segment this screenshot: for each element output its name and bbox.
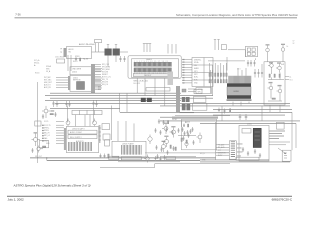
svg-text:U0410: U0410	[72, 71, 77, 73]
IC U0900 left pins	[64, 128, 67, 150]
wire	[178, 121, 196, 136]
resistor R0321	[186, 140, 187, 143]
transistor Q0201	[268, 62, 273, 70]
dark block pair	[182, 104, 186, 111]
IC U0412	[77, 82, 85, 90]
capacitor C0252	[183, 124, 185, 128]
svg-text:AUDIO CODEC: AUDIO CODEC	[70, 131, 83, 134]
IC U0900 right pins	[99, 125, 101, 143]
svg-text:R0100: R0100	[35, 73, 40, 75]
svg-text:U0900 GCAP II: U0900 GCAP II	[72, 127, 85, 130]
transistor Q0206	[281, 44, 285, 55]
svg-text:C0501 R0502: C0501 R0502	[55, 57, 64, 59]
svg-text:U0301: U0301	[247, 123, 252, 125]
capacitor C0212	[250, 60, 252, 67]
transistor Q0203	[268, 82, 273, 94]
box	[242, 129, 251, 134]
capacitor C0910	[99, 154, 101, 159]
svg-text:SPI_B: SPI_B	[200, 153, 205, 155]
svg-text:AUDIO PA U0500: AUDIO PA U0500	[79, 43, 96, 46]
inductor L0402	[147, 98, 152, 102]
wire	[100, 164, 230, 168]
transistor Q0906	[37, 146, 43, 153]
box U0904	[103, 134, 110, 140]
resistor R0320	[181, 138, 182, 141]
resistor R0910	[108, 154, 109, 157]
capacitor cluster 2	[155, 145, 174, 160]
bar U0402	[146, 88, 170, 91]
transistor Q0901	[66, 119, 70, 127]
connector J0401	[192, 58, 213, 87]
svg-text:SPK-: SPK-	[198, 92, 202, 94]
svg-text:SPKR-: SPKR-	[44, 130, 49, 132]
svg-text:1 2 3: 1 2 3	[237, 69, 241, 71]
resistor R0902	[43, 146, 46, 147]
box U0501	[57, 59, 65, 63]
capacitor C0213	[253, 60, 255, 67]
transistor Q0202	[276, 62, 281, 72]
wire	[67, 93, 127, 140]
capacitor C0301	[242, 147, 244, 152]
switch S0200	[246, 46, 258, 56]
transistor Q0101	[42, 106, 54, 118]
wire	[238, 68, 246, 76]
resistor R0323	[175, 147, 176, 150]
shield box SH0400	[128, 56, 181, 78]
resistor array R0430-R0436	[209, 80, 227, 83]
label bar U0401	[134, 73, 172, 76]
svg-text:EEPROM: EEPROM	[73, 80, 81, 82]
IC U0901 FLASH	[112, 141, 146, 157]
wire bus	[30, 158, 216, 161]
svg-text:AUX_RX: AUX_RX	[44, 86, 52, 89]
wire bus	[45, 93, 290, 106]
svg-text:BUS+: BUS+	[194, 77, 198, 79]
svg-text:7-36: 7-36	[15, 13, 21, 17]
resistor R0242	[279, 74, 280, 77]
svg-text:BUS-: BUS-	[194, 80, 198, 82]
capacitor C0303	[254, 149, 256, 154]
svg-text:D0..D15: D0..D15	[134, 83, 141, 85]
junction	[46, 157, 47, 158]
capacitor C0104	[95, 100, 98, 107]
capacitor C0105	[54, 112, 56, 117]
wire	[210, 76, 227, 79]
crystal Y0300	[253, 128, 261, 147]
wire	[56, 78, 68, 88]
svg-text:VRef: VRef	[44, 140, 48, 142]
capacitor C0215	[257, 69, 259, 78]
svg-text:Schematics, Component Location: Schematics, Component Location Diagrams,…	[176, 13, 298, 17]
capacitor C0906	[31, 148, 33, 153]
box FL0500	[95, 40, 102, 43]
net labels top-left	[34, 59, 40, 67]
svg-text:SH2: SH2	[281, 64, 284, 66]
wire	[92, 45, 129, 67]
svg-text:SSI_FS: SSI_FS	[102, 84, 109, 86]
svg-text:ONE_WIRE: ONE_WIRE	[72, 69, 82, 71]
test point TP0401	[143, 44, 151, 53]
capacitor C0511	[123, 56, 125, 62]
capacitor C0302	[247, 151, 249, 156]
svg-text:SPKR+: SPKR+	[44, 127, 49, 129]
net labels	[98, 64, 111, 91]
IC U0900 pin comb	[68, 142, 91, 151]
transistor Q0311	[170, 126, 176, 137]
svg-text:U0401: U0401	[146, 59, 153, 61]
IC U0200 bottom pins	[227, 95, 251, 98]
box RP0903	[236, 157, 259, 160]
wire	[222, 105, 280, 121]
svg-text:July 1, 2002: July 1, 2002	[8, 197, 25, 201]
svg-text:B+: B+	[287, 46, 289, 48]
box FL0203	[192, 103, 207, 110]
resistor R0251	[188, 124, 189, 127]
wire	[208, 57, 228, 71]
resistor R0322	[170, 145, 171, 148]
box U0410	[70, 67, 92, 75]
box R-pack RP0901	[109, 156, 119, 159]
transistor Q0313	[162, 141, 166, 152]
footer rule	[7, 195, 292, 198]
capacitor C0323	[187, 133, 189, 138]
box FL0201	[194, 90, 202, 94]
svg-text:3V: 3V	[293, 43, 295, 45]
test point TP0402	[168, 44, 176, 54]
capacitor C0101	[52, 101, 55, 108]
IC U0300	[229, 141, 236, 159]
wire	[137, 78, 165, 106]
wire	[233, 102, 249, 106]
transistor Q0902	[93, 119, 97, 127]
resistor R0243	[272, 98, 275, 99]
transistor Q0903	[32, 132, 41, 146]
net flags left	[44, 121, 51, 145]
box U0905	[105, 140, 110, 146]
wire	[268, 55, 284, 62]
IC U0200 pin fan	[229, 76, 252, 84]
transistor Q0907	[144, 155, 149, 163]
box module U0301	[239, 125, 269, 161]
wire	[188, 89, 196, 92]
pin labels U0300	[237, 144, 243, 157]
resistor R0101	[50, 114, 53, 115]
wire bus	[160, 117, 300, 123]
voltage flags	[214, 40, 220, 51]
transistor Q0905	[197, 133, 203, 144]
svg-text:VCC2.75: VCC2.75	[44, 125, 51, 127]
wire	[145, 152, 230, 154]
resistor R0250	[182, 89, 186, 92]
wire bus	[200, 160, 290, 162]
wire	[56, 121, 64, 143]
svg-text:U0901 FLASH: U0901 FLASH	[122, 142, 134, 145]
svg-text:SW B+: SW B+	[194, 62, 199, 64]
capacitor C0325	[158, 119, 160, 124]
IC U0200 pin row	[227, 99, 252, 101]
capacitor C0214	[254, 69, 256, 78]
connector pin dashes	[284, 153, 287, 158]
svg-text:MIC_LO: MIC_LO	[44, 135, 51, 137]
pin comb	[168, 72, 174, 86]
svg-text:REG / SUPPLY: REG / SUPPLY	[70, 137, 82, 139]
box U0250	[181, 119, 216, 150]
resistor R0244	[230, 109, 231, 112]
capacitor C0912	[154, 156, 156, 161]
net labels left	[44, 49, 63, 90]
capacitor C0320	[181, 127, 183, 132]
wire	[175, 113, 230, 116]
capacitor C0304	[259, 153, 261, 158]
IC U0901 pin comb	[122, 145, 142, 155]
capacitor C0220	[221, 45, 226, 50]
wire	[92, 69, 102, 89]
capacitor C0106	[65, 101, 67, 107]
shield box right	[264, 62, 285, 105]
IC U0200 top pins	[227, 83, 251, 87]
capacitor C0322	[191, 127, 193, 132]
svg-text:VIP1: VIP1	[194, 71, 198, 73]
transformer T0500	[105, 49, 112, 56]
svg-text:U0200: U0200	[234, 91, 239, 93]
capacitor C0251	[182, 136, 184, 141]
resistor network bar	[72, 110, 102, 114]
transistor Q0205	[266, 44, 270, 55]
sub block	[68, 130, 97, 134]
box FL0202	[193, 97, 206, 103]
capacitor C0326	[162, 120, 164, 125]
capacitor C0510	[119, 56, 121, 62]
svg-text:B+: B+	[185, 122, 187, 124]
wire	[216, 145, 229, 155]
capacitor C0211	[247, 60, 249, 67]
box J0402	[196, 88, 212, 94]
wire	[295, 123, 297, 148]
pin comb column	[91, 64, 95, 93]
wire	[268, 94, 282, 102]
IC U0200	[227, 87, 251, 96]
box U0411	[70, 75, 92, 91]
capacitor C0108	[42, 114, 44, 119]
IC U0900 pin stubs	[99, 128, 101, 140]
capacitor C0911	[103, 154, 105, 159]
resistor R0241	[274, 74, 275, 77]
capacitor C0321	[186, 130, 188, 135]
resistor array R0420-R0426	[209, 73, 227, 76]
wire	[269, 142, 290, 145]
header rule	[15, 17, 298, 18]
svg-text:R0503: R0503	[73, 61, 78, 63]
svg-text:K9.1: K9.1	[290, 80, 293, 82]
box U0903	[102, 124, 110, 130]
svg-text:5V: 5V	[293, 41, 295, 43]
svg-text:SW_B+: SW_B+	[34, 63, 40, 65]
connector J0300	[282, 150, 291, 161]
bus band	[172, 117, 218, 119]
op-amp U0500	[67, 47, 92, 59]
note text	[269, 131, 285, 140]
pin comb column U0401 bottom	[176, 86, 180, 113]
resistor R0324	[168, 121, 169, 124]
wire	[228, 58, 262, 69]
transistor Q0204	[277, 85, 282, 97]
svg-text:VCC5: VCC5	[44, 121, 48, 123]
wire	[210, 63, 227, 73]
capacitor C0221	[239, 114, 242, 120]
box RP0902	[166, 157, 176, 160]
capacitor C0102	[56, 101, 59, 108]
net flags	[218, 144, 226, 157]
IC U0300 pin comb	[231, 142, 235, 157]
wire	[95, 64, 101, 89]
wire	[118, 161, 180, 163]
transistor Q0310	[162, 123, 168, 134]
transistor Q0904	[148, 135, 152, 145]
wire	[228, 50, 246, 57]
sub block	[68, 135, 97, 139]
box VR0900	[39, 140, 48, 147]
svg-text:BE1: BE1	[98, 89, 101, 91]
capacitor C0913	[159, 157, 161, 162]
arrow	[278, 148, 286, 154]
svg-text:1 3 5 7 9 11 13 15 17 19 21: 1 3 5 7 9 11 13 15 17 19 21	[134, 61, 168, 63]
wire	[36, 82, 38, 163]
capacitor C0216	[261, 69, 263, 78]
capacitor cluster	[154, 127, 191, 136]
wire stubs	[285, 77, 289, 80]
box pin row U0901	[121, 157, 141, 160]
svg-text:6881076C20-C: 6881076C20-C	[272, 197, 293, 201]
box J0100	[35, 121, 41, 126]
transistor Q0251	[185, 141, 188, 149]
svg-text:VIP2: VIP2	[194, 74, 198, 76]
wire bus	[50, 108, 292, 115]
wire	[160, 156, 196, 158]
capacitor C0324	[192, 140, 194, 145]
IC U0401	[134, 62, 172, 66]
transistor Q0312	[163, 136, 169, 147]
box	[277, 122, 285, 129]
svg-text:MIC_HI: MIC_HI	[44, 133, 50, 135]
wire flags	[182, 59, 192, 84]
wire	[216, 112, 292, 160]
wire	[211, 70, 213, 96]
capacitor C0224	[223, 109, 225, 114]
dark block pair	[182, 97, 186, 102]
capacitor C0103	[92, 100, 95, 107]
resistor R0504	[80, 58, 81, 61]
svg-text:2 4 6 8 10 12 14 16 18 20: 2 4 6 8 10 12 14 16 18 20	[134, 73, 166, 75]
IC U0900	[66, 126, 98, 152]
inductor L0401	[141, 98, 146, 102]
wire	[96, 43, 99, 52]
wire	[76, 115, 91, 127]
capacitor C0107	[68, 101, 70, 107]
wire	[46, 158, 48, 161]
inner shield box	[132, 59, 179, 78]
svg-text:AUD/SYN: AUD/SYN	[76, 140, 84, 143]
wire	[118, 121, 134, 141]
wire	[268, 70, 284, 80]
svg-text:ASTRO Spectra Plus Digital/128: ASTRO Spectra Plus Digital/128 Schematic…	[13, 184, 91, 188]
resistor R0240	[269, 74, 270, 77]
wire	[68, 55, 71, 71]
capacitor C0502	[75, 57, 77, 61]
capacitor C0222	[245, 114, 248, 120]
capacitor C0223	[218, 108, 220, 113]
svg-text:UNSW B+: UNSW B+	[194, 59, 201, 61]
